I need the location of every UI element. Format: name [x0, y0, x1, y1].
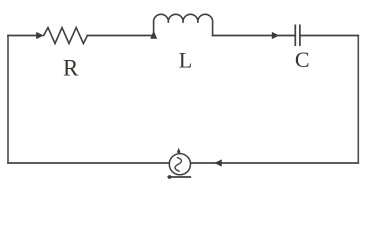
wire resistor to inductor — [87, 35, 153, 37]
small arrow above AC source — [177, 148, 181, 153]
svg-text:L: L — [179, 47, 192, 72]
capacitor C plate left — [294, 25, 296, 45]
inductor L — [154, 14, 213, 36]
wire inductor to capacitor — [213, 35, 295, 37]
AC source underline — [168, 176, 190, 178]
current arrow before capacitor — [272, 32, 280, 39]
wire capacitor to top-right corner — [301, 35, 358, 37]
current arrow on bottom wire pointing left — [214, 159, 222, 166]
wire bottom right segment — [191, 162, 358, 164]
current arrow before resistor — [36, 32, 44, 39]
wire right vertical — [357, 36, 359, 164]
dot at left end of source underline — [168, 175, 172, 179]
AC source sine wave — [175, 158, 181, 172]
capacitor C plate right — [299, 25, 301, 45]
svg-text:R: R — [63, 56, 79, 81]
wire left vertical — [7, 36, 9, 164]
resistor R — [44, 28, 88, 44]
current arrow up at inductor input — [150, 31, 157, 39]
wire bottom left segment — [8, 162, 169, 164]
wire top-left to resistor — [8, 35, 39, 37]
svg-text:C: C — [295, 47, 310, 72]
AC source circle — [169, 154, 190, 175]
